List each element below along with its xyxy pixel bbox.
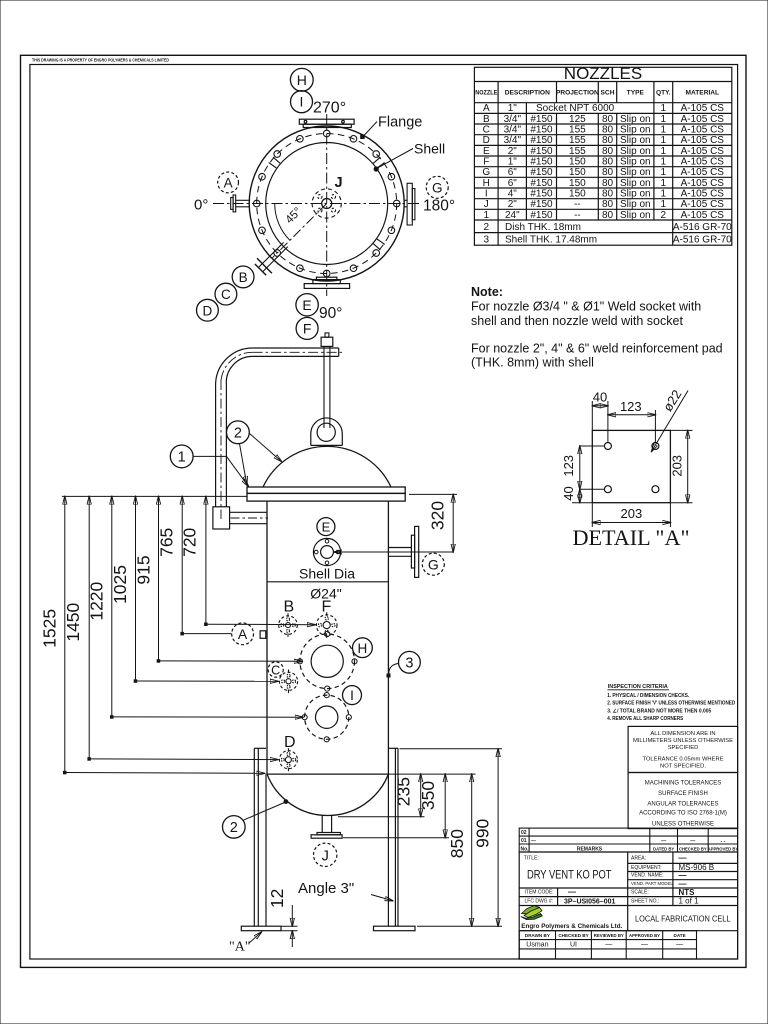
svg-text:MILLIMETERS UNLESS OTHERWISE: MILLIMETERS UNLESS OTHERWISE xyxy=(633,738,733,744)
shell label xyxy=(374,141,446,172)
svg-text:1: 1 xyxy=(661,103,667,114)
svg-text:1525: 1525 xyxy=(40,609,60,648)
svg-text:6": 6" xyxy=(508,167,518,178)
label circle G xyxy=(426,176,448,198)
svg-text:J: J xyxy=(484,199,489,210)
svg-text:NOT SPECIFIED.: NOT SPECIFIED. xyxy=(660,764,706,770)
svg-text:CHECKED BY: CHECKED BY xyxy=(558,933,588,938)
svg-text:Note:: Note: xyxy=(471,285,503,299)
leg right xyxy=(388,748,398,926)
svg-text:C: C xyxy=(271,663,280,677)
A quote label xyxy=(229,932,262,955)
svg-text:A-105 CS: A-105 CS xyxy=(681,103,725,114)
svg-text:6": 6" xyxy=(508,178,518,189)
svg-text:No.: No. xyxy=(521,846,530,852)
svg-text:PROJECTION: PROJECTION xyxy=(556,90,599,97)
svg-text:Angle 3": Angle 3" xyxy=(298,880,354,897)
45 deg arc xyxy=(275,204,290,241)
label circle E xyxy=(317,518,335,536)
svg-text:3/4": 3/4" xyxy=(504,125,522,136)
table headers xyxy=(475,90,719,97)
ext line J root xyxy=(338,816,425,818)
svg-text:—: — xyxy=(531,839,536,845)
label circle B xyxy=(232,266,254,288)
leg left xyxy=(254,748,266,926)
svg-text:A-105 CS: A-105 CS xyxy=(681,146,725,157)
elbow fitting xyxy=(213,507,230,529)
svg-text:1: 1 xyxy=(661,125,667,136)
svg-text:D: D xyxy=(203,303,213,318)
callout 1 xyxy=(170,445,248,487)
svg-text:DRAWN BY: DRAWN BY xyxy=(525,933,550,938)
dim 12 xyxy=(267,889,298,947)
svg-text:80: 80 xyxy=(602,146,614,157)
rod nut xyxy=(321,337,333,346)
ext line leg top xyxy=(400,748,503,750)
signature table xyxy=(519,931,696,959)
svg-text:For nozzle Ø3/4 " & Ø1" Weld: For nozzle Ø3/4 " & Ø1" Weld socket with xyxy=(471,300,701,314)
svg-text:J: J xyxy=(335,175,343,191)
svg-text:2: 2 xyxy=(484,222,490,233)
svg-text:UI: UI xyxy=(570,942,577,949)
svg-text:MACHINING TOLERANCES: MACHINING TOLERANCES xyxy=(645,781,721,787)
engro logo xyxy=(521,906,543,920)
svg-text:765: 765 xyxy=(157,528,177,557)
svg-text:E: E xyxy=(302,297,311,313)
svg-text:1. PHYSICAL / DIMENSION CH: 1. PHYSICAL / DIMENSION CHECKS. xyxy=(607,693,689,699)
svg-text:—: — xyxy=(641,942,648,949)
svg-text:3: 3 xyxy=(484,234,490,245)
vent pipe bend xyxy=(216,348,253,385)
shell circle xyxy=(266,143,388,265)
svg-text:990: 990 xyxy=(473,818,493,847)
label circle I xyxy=(291,91,313,113)
svg-text:Slip on: Slip on xyxy=(620,135,651,146)
nozzle HI top flange xyxy=(299,119,354,127)
callout 3 xyxy=(387,651,421,677)
top flange pair xyxy=(247,487,405,501)
svg-text:4": 4" xyxy=(508,189,518,200)
svg-text:#150: #150 xyxy=(530,135,553,146)
svg-text:915: 915 xyxy=(134,555,154,584)
shell body xyxy=(267,501,388,774)
svg-text:ANGULAR TOLERANCES: ANGULAR TOLERANCES xyxy=(647,802,718,808)
svg-text:E: E xyxy=(483,146,490,157)
svg-text:shell and then nozzle weld wit: shell and then nozzle weld with socket xyxy=(471,314,683,328)
svg-text:1": 1" xyxy=(508,157,518,168)
vent pipe vertical run xyxy=(216,385,227,507)
label circle I xyxy=(343,686,362,705)
label circle H xyxy=(290,68,313,91)
tolerance box xyxy=(628,726,738,772)
svg-text:350: 350 xyxy=(418,781,438,810)
svg-text:EQUIPMENT:: EQUIPMENT: xyxy=(631,865,662,871)
svg-text:A-516 GR-70: A-516 GR-70 xyxy=(673,222,732,233)
svg-text:#150: #150 xyxy=(530,167,553,178)
svg-text:ALL DIMENSION ARE IN: ALL DIMENSION ARE IN xyxy=(650,731,715,737)
dim 235 xyxy=(393,774,420,817)
svg-text:ø22: ø22 xyxy=(660,387,685,414)
svg-text:For nozzle 2", 4" & 6" weld re: For nozzle 2", 4" & 6" weld reinforcemen… xyxy=(471,342,723,356)
svg-text:1: 1 xyxy=(661,189,667,200)
svg-text:DATED BY: DATED BY xyxy=(653,846,674,851)
svg-text:2: 2 xyxy=(230,820,238,836)
dim 320 xyxy=(409,494,457,552)
svg-text:2. SURFACE FINISH 'V' UNLES: 2. SURFACE FINISH 'V' UNLESS OTHERWISE M… xyxy=(607,701,735,707)
machining tolerance box xyxy=(628,773,738,829)
nozzle D face xyxy=(279,748,297,771)
label circle A xyxy=(232,623,254,645)
svg-text:A-105 CS: A-105 CS xyxy=(681,178,725,189)
svg-text:1: 1 xyxy=(661,199,667,210)
nozzle J bottom xyxy=(311,816,342,839)
svg-text:A-105 CS: A-105 CS xyxy=(681,167,725,178)
pipe centerline xyxy=(221,352,343,519)
svg-text:0°: 0° xyxy=(194,197,208,214)
svg-text:I: I xyxy=(485,189,488,200)
shell clips NW xyxy=(269,157,280,168)
svg-text:#150: #150 xyxy=(530,189,553,200)
svg-text:1: 1 xyxy=(661,157,667,168)
svg-text:45°: 45° xyxy=(283,205,304,226)
svg-text:Flange: Flange xyxy=(378,115,422,131)
svg-text:Shell: Shell xyxy=(414,141,445,157)
svg-text:G: G xyxy=(482,167,490,178)
svg-text:3: 3 xyxy=(405,656,413,672)
svg-text:2": 2" xyxy=(508,146,518,157)
svg-text:SPECIFIED: SPECIFIED xyxy=(668,745,699,751)
flange outer circle xyxy=(249,126,404,281)
svg-text:150: 150 xyxy=(569,178,586,189)
leader E to 320 xyxy=(334,551,453,553)
svg-text:Shell THK. 17.48mm: Shell THK. 17.48mm xyxy=(505,234,597,245)
svg-text:320: 320 xyxy=(428,501,448,530)
svg-text:H: H xyxy=(297,72,307,88)
svg-text:TITLE:: TITLE: xyxy=(524,856,539,862)
svg-text:TOLERANCE 0.05mm WHERE: TOLERANCE 0.05mm WHERE xyxy=(642,757,723,763)
dim 123 left xyxy=(561,446,604,489)
svg-text:2: 2 xyxy=(234,426,242,442)
svg-text:80: 80 xyxy=(602,178,614,189)
nozzle E face xyxy=(313,538,340,565)
centerline vertical xyxy=(326,114,328,296)
svg-text:- -: - - xyxy=(721,839,726,845)
nozzle A left stub xyxy=(231,195,250,212)
svg-text:B: B xyxy=(483,114,490,125)
svg-text:40: 40 xyxy=(561,486,576,500)
hanger rod xyxy=(324,346,330,428)
nozzle EF bottom flange xyxy=(304,277,349,288)
nozzle G side xyxy=(388,526,418,577)
svg-text:B: B xyxy=(284,599,295,616)
svg-text:123: 123 xyxy=(561,455,576,477)
svg-text:—: — xyxy=(676,942,683,949)
svg-text:UNLESS OTHERWISE: UNLESS OTHERWISE xyxy=(652,822,714,828)
bottom dish head xyxy=(267,773,388,775)
svg-text:3/4": 3/4" xyxy=(504,114,522,125)
dim dia22 leader xyxy=(652,387,689,451)
svg-text:720: 720 xyxy=(180,527,200,556)
svg-text:#150: #150 xyxy=(530,157,553,168)
label circle J xyxy=(314,843,337,866)
dim 350 xyxy=(418,774,445,838)
dim 1450 xyxy=(63,496,278,760)
svg-text:850: 850 xyxy=(447,829,467,858)
svg-text:B: B xyxy=(239,270,248,285)
svg-text:125: 125 xyxy=(569,114,586,125)
pad plate xyxy=(592,430,670,502)
svg-text:I: I xyxy=(350,688,354,703)
nozzle I face xyxy=(302,693,351,742)
label circle A xyxy=(218,172,239,193)
bolt circle xyxy=(257,134,397,274)
dim 123 top xyxy=(608,399,656,442)
centerline horizontal xyxy=(213,203,421,205)
svg-text:NOZZLES: NOZZLES xyxy=(564,64,642,83)
svg-text:"A": "A" xyxy=(229,940,251,955)
svg-text:1450: 1450 xyxy=(63,602,83,641)
revision rows text xyxy=(521,830,739,852)
svg-text:3P–USI056–001: 3P–USI056–001 xyxy=(564,899,615,906)
rod washer xyxy=(325,333,329,337)
svg-text:VEND. PART MODEL:: VEND. PART MODEL: xyxy=(631,881,674,886)
label circle H xyxy=(353,638,373,658)
leg left base plate xyxy=(241,926,281,931)
svg-text:DRY VENT KO POT: DRY VENT KO POT xyxy=(527,868,612,882)
svg-text:1: 1 xyxy=(661,135,667,146)
label circle E xyxy=(296,294,318,316)
svg-text:80: 80 xyxy=(602,114,614,125)
svg-text:155: 155 xyxy=(569,135,586,146)
dim 1525 xyxy=(40,496,265,774)
lifting lug xyxy=(311,418,343,445)
svg-text:80: 80 xyxy=(602,199,614,210)
dim 40 left xyxy=(561,486,592,502)
svg-text:203: 203 xyxy=(670,455,685,477)
svg-text:123: 123 xyxy=(620,399,642,414)
nozzle A socket xyxy=(260,631,266,639)
svg-text:INSPECTION CRITERIA: INSPECTION CRITERIA xyxy=(608,684,668,690)
svg-text:C: C xyxy=(221,287,231,302)
top dish head xyxy=(263,446,391,487)
svg-text:1 of 1: 1 of 1 xyxy=(679,897,700,906)
svg-text:1: 1 xyxy=(661,167,667,178)
table data xyxy=(482,103,732,245)
svg-text:Slip on: Slip on xyxy=(620,178,651,189)
callout 2 bottom xyxy=(223,799,289,838)
bolt holes xyxy=(253,130,400,277)
dim 990 xyxy=(473,749,498,927)
svg-text:Socket NPT 6000: Socket NPT 6000 xyxy=(536,103,615,114)
svg-text:1025: 1025 xyxy=(110,565,130,604)
svg-text:REMARKS: REMARKS xyxy=(577,846,603,852)
svg-text:A-105 CS: A-105 CS xyxy=(681,189,725,200)
vent pipe horizontal run xyxy=(253,348,339,356)
svg-text:3. ∠/ TOTAL BRAND NOT MOR: 3. ∠/ TOTAL BRAND NOT MORE THEN 0.005 xyxy=(607,708,711,714)
label circle C xyxy=(268,662,283,677)
svg-text:Slip on: Slip on xyxy=(620,114,651,125)
svg-text:--: -- xyxy=(574,210,581,221)
svg-text:3/4": 3/4" xyxy=(504,135,522,146)
svg-text:#150: #150 xyxy=(530,114,553,125)
svg-text:CHECKED BY: CHECKED BY xyxy=(679,846,707,851)
svg-text:12: 12 xyxy=(267,889,287,908)
svg-text:80: 80 xyxy=(602,135,614,146)
top reference extension line xyxy=(62,495,247,497)
dim 765 xyxy=(157,496,232,635)
svg-text:APPROVED BY: APPROVED BY xyxy=(629,933,660,938)
svg-text:#150: #150 xyxy=(530,125,553,136)
svg-text:01: 01 xyxy=(521,838,527,844)
svg-text:SCH: SCH xyxy=(601,90,615,97)
svg-text:—: — xyxy=(679,854,687,863)
svg-text:150: 150 xyxy=(569,167,586,178)
nozzle F face xyxy=(316,612,337,638)
svg-text:F: F xyxy=(483,157,489,168)
svg-text:02: 02 xyxy=(521,830,527,836)
svg-text:Slip on: Slip on xyxy=(620,199,651,210)
svg-text:A-105 CS: A-105 CS xyxy=(681,157,725,168)
svg-text:A-516 GR-70: A-516 GR-70 xyxy=(673,234,732,245)
svg-text:D: D xyxy=(284,734,296,751)
svg-text:Slip on: Slip on xyxy=(620,167,651,178)
nozzle C face xyxy=(279,670,297,694)
svg-text:REVIEWED BY: REVIEWED BY xyxy=(594,933,624,938)
svg-text:#150: #150 xyxy=(530,146,553,157)
svg-text:—: — xyxy=(568,888,576,897)
flange label xyxy=(360,115,422,140)
svg-text:ACCORDING TO ISO 2768-1(M): ACCORDING TO ISO 2768-1(M) xyxy=(639,811,727,817)
svg-text:SHEET NO.:: SHEET NO.: xyxy=(631,899,659,905)
svg-text:I: I xyxy=(300,94,304,110)
svg-text:SCALE:: SCALE: xyxy=(631,890,649,896)
svg-text:Dish THK. 18mm: Dish THK. 18mm xyxy=(505,222,581,233)
svg-text:F: F xyxy=(303,321,312,337)
svg-text:QTY.: QTY. xyxy=(656,90,671,97)
svg-text:VEND. NAME:: VEND. NAME: xyxy=(631,873,664,879)
svg-text:2": 2" xyxy=(508,199,518,210)
svg-text:40: 40 xyxy=(593,390,607,405)
svg-text:#150: #150 xyxy=(530,210,553,221)
svg-text:155: 155 xyxy=(569,125,586,136)
svg-text:ITEM CODE:: ITEM CODE: xyxy=(525,890,554,896)
svg-text:A: A xyxy=(483,103,490,114)
45 deg line xyxy=(272,204,327,259)
dim 915 xyxy=(134,496,303,662)
svg-text:80: 80 xyxy=(602,125,614,136)
svg-text:THIS DRAWING IS A PROPERTY: THIS DRAWING IS A PROPERTY OF ENGRO POLY… xyxy=(32,58,170,63)
svg-text:Slip on: Slip on xyxy=(620,210,651,221)
svg-text:H: H xyxy=(358,641,368,656)
svg-text:A-105 CS: A-105 CS xyxy=(681,114,725,125)
revision table xyxy=(519,828,737,852)
svg-text:DATE: DATE xyxy=(674,933,686,938)
svg-text:1: 1 xyxy=(178,450,186,466)
svg-text:Usman: Usman xyxy=(526,942,548,949)
svg-text:DETAIL "A": DETAIL "A" xyxy=(573,525,690,550)
nozzle H face xyxy=(297,631,357,691)
svg-text:D: D xyxy=(483,135,490,146)
shell clips SE xyxy=(373,239,384,250)
svg-text:203: 203 xyxy=(621,506,643,521)
nozzle G right stub xyxy=(404,183,415,225)
label circle D xyxy=(197,299,219,321)
svg-text:150: 150 xyxy=(569,157,586,168)
nozzle BCD diagonal stub xyxy=(255,242,288,275)
svg-text:80: 80 xyxy=(602,210,614,221)
svg-text:AREA:: AREA: xyxy=(631,856,646,862)
inlet nozzle pipe xyxy=(230,512,268,523)
svg-text:DESCRIPTION: DESCRIPTION xyxy=(505,90,550,97)
svg-text:—: — xyxy=(661,839,666,845)
shell clips NE xyxy=(373,157,384,168)
svg-text:4. REMOVE ALL SHARP CORNER: 4. REMOVE ALL SHARP CORNERS xyxy=(607,716,683,722)
svg-text:80: 80 xyxy=(602,189,614,200)
svg-text:E: E xyxy=(322,520,331,535)
svg-text:Slip on: Slip on xyxy=(620,157,651,168)
svg-text:—: — xyxy=(605,942,612,949)
nozzles table frame xyxy=(474,67,731,245)
svg-text:G: G xyxy=(432,180,443,195)
dim 1025 xyxy=(110,496,278,682)
svg-text:A-105 CS: A-105 CS xyxy=(681,210,725,221)
svg-text:NOZZLE: NOZZLE xyxy=(475,90,497,97)
svg-text:--: -- xyxy=(574,199,581,210)
svg-text:A: A xyxy=(238,626,248,642)
svg-text:G: G xyxy=(428,557,439,573)
svg-text:C: C xyxy=(483,125,490,136)
svg-text:2: 2 xyxy=(661,210,667,221)
svg-text:LOCAL FABRICATION CELL: LOCAL FABRICATION CELL xyxy=(635,914,731,924)
svg-text:Slip on: Slip on xyxy=(620,125,651,136)
svg-text:180°: 180° xyxy=(423,198,455,215)
svg-text:1: 1 xyxy=(661,178,667,189)
svg-text:MATERIAL: MATERIAL xyxy=(686,90,720,97)
svg-text:H: H xyxy=(483,178,490,189)
svg-text:155: 155 xyxy=(569,146,586,157)
label circle C xyxy=(215,283,237,305)
svg-text:(THK. 8mm) with shell: (THK. 8mm) with shell xyxy=(471,356,594,370)
svg-text:Engro Polymers & Chemicals: Engro Polymers & Chemicals Ltd. xyxy=(521,923,622,930)
ext line dish xyxy=(388,773,475,775)
svg-text:270°: 270° xyxy=(313,100,346,117)
svg-text:A-105 CS: A-105 CS xyxy=(681,135,725,146)
dim 40 top xyxy=(592,390,608,443)
svg-text:150: 150 xyxy=(569,189,586,200)
leg right base plate xyxy=(374,926,416,931)
inspection criteria xyxy=(607,684,735,722)
svg-text:J: J xyxy=(322,848,329,864)
svg-text:SURFACE FINISH: SURFACE FINISH xyxy=(658,791,708,797)
dim 203 bottom xyxy=(592,503,670,527)
svg-text:A-105 CS: A-105 CS xyxy=(681,125,725,136)
svg-text:TYPE: TYPE xyxy=(627,90,645,97)
callout 2 top xyxy=(227,421,282,485)
ext line base xyxy=(417,925,502,927)
svg-text:1: 1 xyxy=(484,210,490,221)
svg-text:24": 24" xyxy=(505,210,520,221)
svg-text:1220: 1220 xyxy=(87,581,107,620)
nozzle B face xyxy=(279,613,298,637)
svg-text:A: A xyxy=(224,175,233,190)
svg-text:1: 1 xyxy=(661,114,667,125)
svg-text:80: 80 xyxy=(602,157,614,168)
svg-text:—: — xyxy=(690,839,695,845)
svg-text:#150: #150 xyxy=(530,178,553,189)
dim 850 xyxy=(447,774,472,926)
dim 1220 xyxy=(87,496,304,718)
svg-text:A-105 CS: A-105 CS xyxy=(681,199,725,210)
